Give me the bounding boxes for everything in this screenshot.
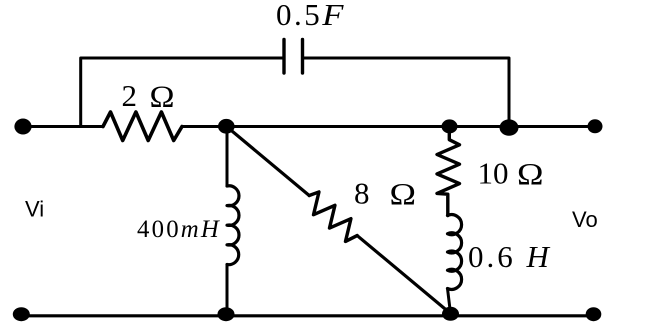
svg-text:0.5F: 0.5F [276,0,346,32]
svg-text:Vo: Vo [572,207,598,232]
svg-text:2: 2 [122,78,138,113]
svg-text:10: 10 [478,156,509,191]
svg-text:8: 8 [354,176,370,211]
svg-text:Ω: Ω [390,176,417,211]
svg-text:400mH: 400mH [137,216,221,243]
svg-text:Ω: Ω [150,79,175,114]
svg-text:0.6 H: 0.6 H [468,239,552,274]
svg-text:Ω: Ω [517,156,544,191]
svg-text:Vi: Vi [25,197,44,222]
